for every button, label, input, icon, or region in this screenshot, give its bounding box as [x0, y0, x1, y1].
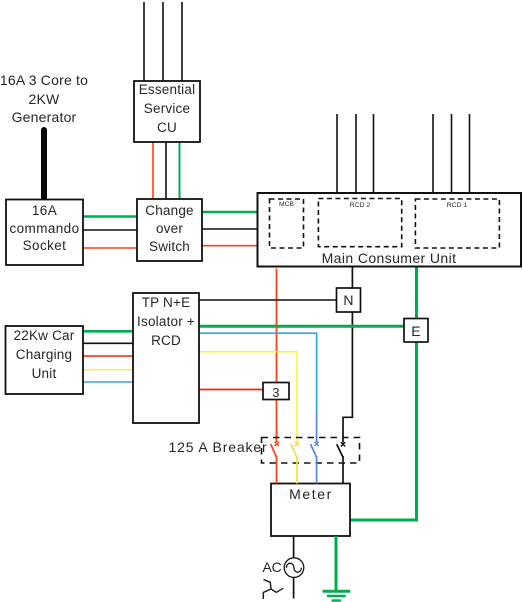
wire: orange drop Essential CU to Changeover [152, 142, 154, 199]
dashed module: RCD 1 [415, 199, 499, 248]
wire: red TP isolator to 3-box [199, 389, 263, 391]
label: Change over Switch [137, 202, 202, 255]
wire: orange changeover into consumer unit to MCB [202, 245, 270, 247]
wire: green changeover to consumer unit [202, 211, 258, 214]
label: N node [337, 291, 361, 309]
breaker pole 4 black: blade [337, 444, 343, 457]
breaker pole 2 yellow: contact x [295, 442, 299, 446]
ground symbol [323, 591, 351, 600]
label: AC [260, 558, 284, 576]
label: Main Consumer Unit [307, 249, 471, 267]
label: 16A 3 Core to 2KW Generator [0, 71, 91, 126]
wire: orange-red vertical MCU through 3-box to breaker [276, 269, 278, 443]
label: Essential Service CU [135, 81, 199, 137]
wire: green meter to earth [335, 536, 338, 590]
label: 16A commando Socket [6, 202, 83, 255]
wire: black vertical MCU through N box, jog to breaker [343, 267, 352, 443]
box: TP N+E Isolator + RCD [133, 293, 199, 423]
box: Essential Service CU [134, 81, 200, 142]
wire: orange socket to changeover [83, 247, 137, 249]
wire: green vertical MCU through E box, down and into Meter [350, 267, 417, 521]
box: Change over Switch [137, 199, 202, 261]
wire: circuit tails above RCD 1 [433, 114, 470, 194]
dashed module: RCD 2 [318, 199, 401, 247]
breaker pole 3 blue: blade [311, 444, 317, 457]
wire: black changeover to consumer unit [202, 228, 258, 230]
box: 22Kw Car Charging Unit [6, 326, 84, 394]
breaker pole 1 red: lower stub to meter [276, 456, 278, 484]
wire: yellow 22Kw charger to TP isolator [83, 369, 133, 371]
breaker pole 1 red: blade [271, 444, 277, 457]
wire: green drop Essential CU to Changeover [179, 142, 181, 199]
squiggle mark left of AC source [263, 580, 283, 600]
wire: black TP isolator to N box [199, 299, 337, 301]
box: 3 node [263, 383, 289, 400]
wire: blue 22Kw charger to TP isolator [83, 381, 133, 383]
wire: blue TP isolator down to breaker [199, 333, 317, 413]
box: 16A commando Socket [6, 200, 83, 266]
breaker pole 3 blue: contact x [314, 442, 318, 446]
label: 22Kw Car Charging Unit [5, 326, 83, 384]
box: Meter [271, 484, 350, 537]
wire: yellow TP isolator down to breaker [199, 352, 297, 442]
breaker pole 4 black: lower stub to meter [342, 456, 344, 484]
label: MCB [269, 200, 304, 210]
label: TP N+E Isolator + RCD [133, 293, 199, 351]
breaker pole 4 black: contact x [341, 442, 345, 446]
wire: circuit tails above RCD 2 [337, 114, 374, 194]
label: E node [404, 322, 428, 340]
label: RCD 2 [318, 201, 402, 211]
wire: black meter to AC source [293, 536, 295, 558]
box: E node [404, 319, 428, 343]
wire: green socket to changeover [83, 215, 137, 218]
wire: black drop Essential CU to Changeover [165, 142, 167, 199]
label: RCD 1 [415, 201, 499, 211]
label: 125 A Breaker [169, 438, 262, 456]
wire: thick generator lead [41, 130, 47, 199]
dashed module: MCB [270, 199, 304, 248]
breaker: dashed enclosure 125 A Breaker [262, 438, 360, 464]
wire: black below AC source [293, 577, 295, 598]
breaker pole 2 yellow: lower stub to meter [296, 456, 298, 484]
label: 3 node [263, 384, 289, 402]
wire: black 22Kw charger to TP isolator [83, 342, 133, 344]
AC source circle [284, 558, 304, 578]
label: Meter [281, 485, 341, 503]
breaker pole 1 red: contact x [275, 442, 279, 446]
wire: three service tails above Essential Service CU [144, 2, 182, 82]
wire: black socket to changeover [83, 229, 137, 231]
wire: red 22Kw charger to TP isolator [83, 355, 133, 357]
AC source sine wave [286, 563, 301, 572]
box: N node [337, 288, 361, 312]
wire: periwinkle lower blue segment to breaker [316, 413, 318, 442]
wire: green TP isolator to E box [199, 325, 404, 328]
box: Main Consumer Unit [258, 193, 522, 267]
breaker pole 3 blue: lower stub to meter [316, 456, 318, 484]
wire: green 22Kw charger to TP isolator [83, 330, 133, 333]
breaker pole 2 yellow: blade [291, 444, 297, 457]
